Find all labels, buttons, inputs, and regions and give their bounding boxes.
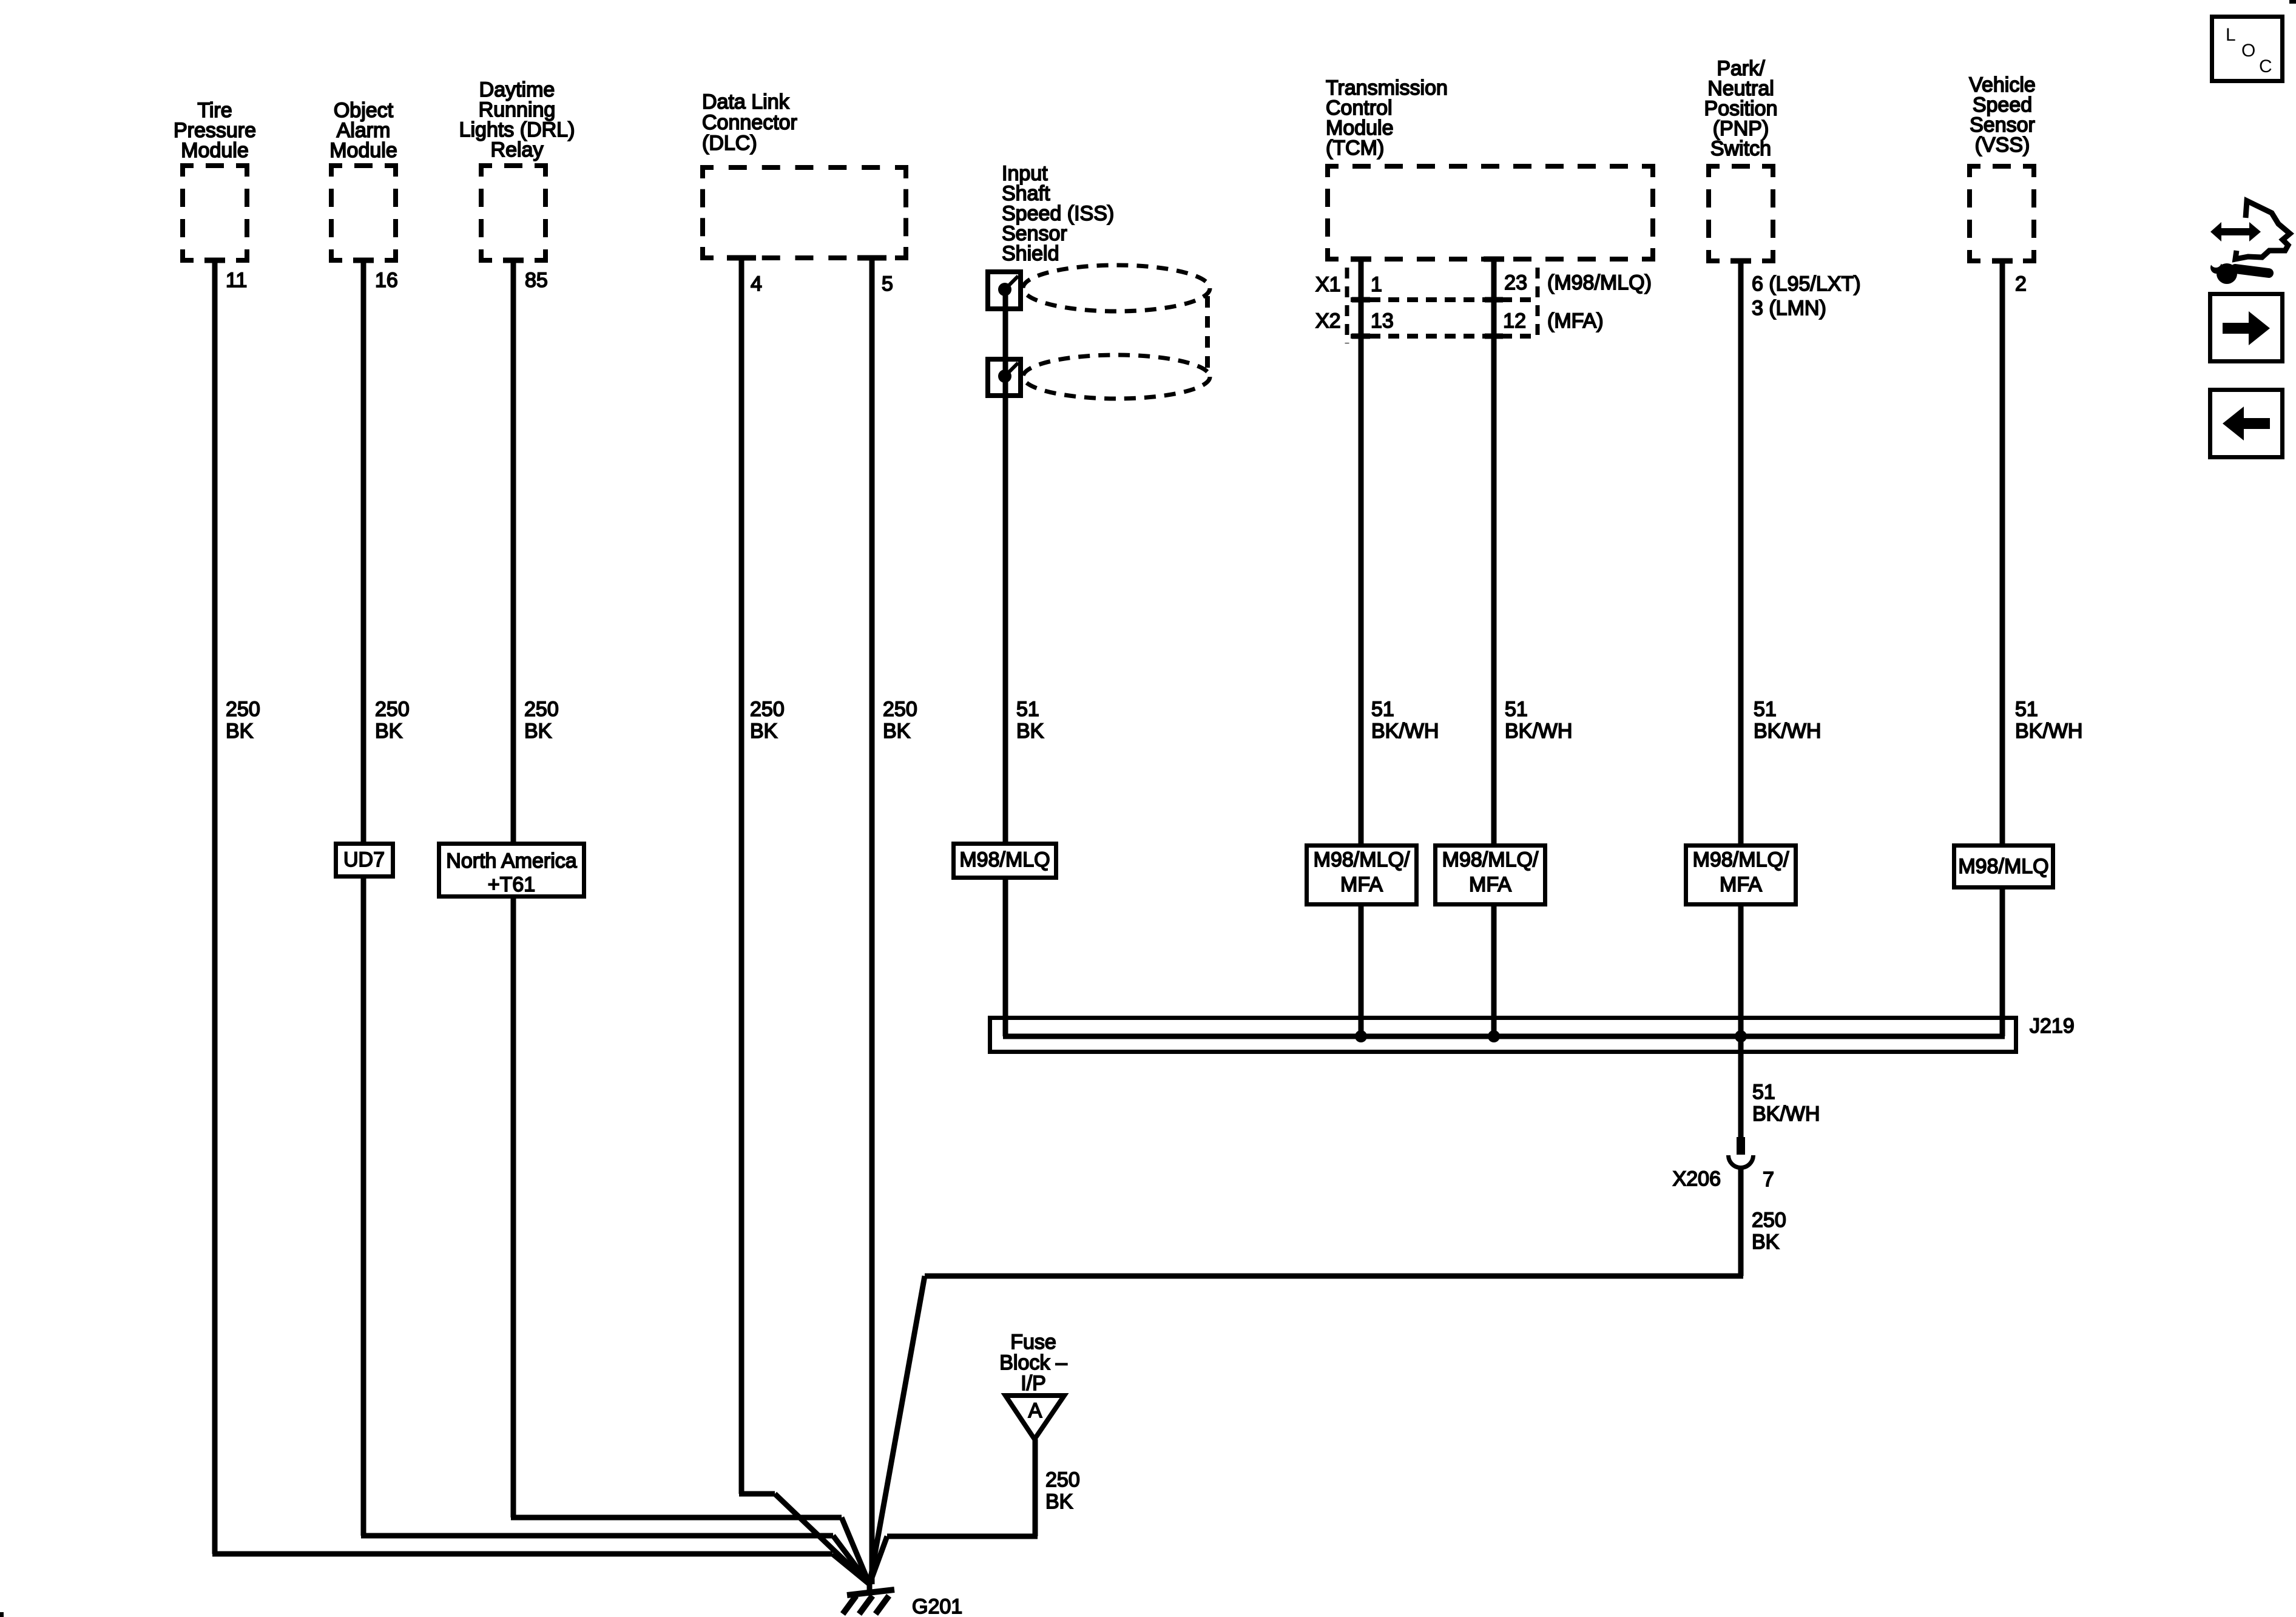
svg-text:M98/MLQ/: M98/MLQ/ (1442, 848, 1539, 871)
svg-text:Connector: Connector (702, 111, 797, 134)
svg-text:51: 51 (2015, 698, 2038, 721)
svg-text:X206: X206 (1673, 1167, 1721, 1190)
svg-text:1: 1 (1371, 273, 1382, 296)
svg-text:L: L (2226, 25, 2236, 45)
svg-text:Block –: Block – (999, 1351, 1067, 1374)
svg-text:UD7: UD7 (343, 848, 385, 871)
svg-text:MFA: MFA (1340, 873, 1383, 896)
svg-text:O: O (2241, 41, 2255, 61)
svg-text:BK: BK (1016, 720, 1044, 743)
svg-text:X2: X2 (1315, 309, 1341, 333)
svg-text:A: A (1028, 1399, 1042, 1422)
svg-text:250: 250 (1045, 1468, 1080, 1491)
svg-text:(MFA): (MFA) (1547, 309, 1604, 333)
svg-text:BK/WH: BK/WH (1752, 1102, 1820, 1126)
svg-text:(M98/MLQ): (M98/MLQ) (1547, 271, 1652, 294)
svg-text:BK/WH: BK/WH (1505, 720, 1572, 743)
svg-text:250: 250 (883, 698, 917, 721)
svg-text:BK: BK (226, 720, 254, 743)
svg-text:51: 51 (1754, 698, 1777, 721)
svg-text:(DLC): (DLC) (702, 132, 757, 155)
svg-text:Module: Module (181, 139, 249, 162)
svg-text:4: 4 (751, 272, 762, 295)
svg-text:250: 250 (524, 698, 559, 721)
svg-text:I/P: I/P (1021, 1372, 1046, 1395)
svg-text:J219: J219 (2030, 1014, 2075, 1038)
svg-text:3 (LMN): 3 (LMN) (1752, 297, 1826, 320)
svg-text:23: 23 (1504, 271, 1527, 294)
svg-text:BK: BK (750, 720, 778, 743)
svg-text:250: 250 (1752, 1209, 1786, 1232)
svg-text:Switch: Switch (1710, 137, 1771, 160)
svg-text:Shield: Shield (1002, 242, 1059, 265)
svg-text:(VSS): (VSS) (1975, 133, 2030, 157)
svg-text:BK: BK (375, 720, 403, 743)
svg-text:MFA: MFA (1720, 873, 1762, 896)
svg-text:250: 250 (226, 698, 260, 721)
svg-text:M98/MLQ/: M98/MLQ/ (1314, 848, 1410, 871)
svg-text:Relay: Relay (491, 138, 544, 161)
svg-text:BK/WH: BK/WH (1371, 720, 1439, 743)
svg-text:51: 51 (1016, 698, 1039, 721)
svg-text:BK: BK (524, 720, 552, 743)
svg-text:Module: Module (329, 139, 397, 162)
svg-text:M98/MLQ/: M98/MLQ/ (1693, 848, 1789, 871)
svg-text:BK: BK (1752, 1230, 1780, 1254)
svg-text:13: 13 (1371, 309, 1394, 333)
svg-text:16: 16 (375, 269, 398, 292)
svg-text:5: 5 (882, 272, 893, 295)
svg-text:G201: G201 (912, 1595, 962, 1617)
svg-text:2: 2 (2015, 272, 2027, 295)
svg-text:M98/MLQ: M98/MLQ (1958, 855, 2048, 878)
svg-text:250: 250 (375, 698, 410, 721)
svg-text:(TCM): (TCM) (1326, 137, 1384, 160)
svg-text:7: 7 (1763, 1168, 1774, 1191)
svg-text:51: 51 (1371, 698, 1394, 721)
svg-text:BK/WH: BK/WH (2015, 720, 2082, 743)
svg-text:51: 51 (1505, 698, 1528, 721)
svg-text:C: C (2259, 56, 2272, 76)
svg-text:11: 11 (226, 269, 247, 292)
svg-text:Data Link: Data Link (702, 90, 790, 113)
svg-text:85: 85 (525, 269, 548, 292)
svg-text:BK/WH: BK/WH (1754, 720, 1821, 743)
svg-text:+T61: +T61 (488, 873, 535, 896)
svg-text:6 (L95/LXT): 6 (L95/LXT) (1752, 272, 1861, 295)
svg-text:BK: BK (883, 720, 911, 743)
svg-text:BK: BK (1045, 1490, 1073, 1513)
svg-text:North America: North America (446, 849, 576, 873)
svg-text:Fuse: Fuse (1010, 1331, 1056, 1354)
svg-text:M98/MLQ: M98/MLQ (959, 848, 1050, 871)
svg-text:12: 12 (1503, 309, 1526, 333)
svg-text:250: 250 (750, 698, 785, 721)
svg-text:51: 51 (1752, 1081, 1775, 1104)
svg-text:X1: X1 (1315, 273, 1341, 296)
svg-text:MFA: MFA (1469, 873, 1511, 896)
